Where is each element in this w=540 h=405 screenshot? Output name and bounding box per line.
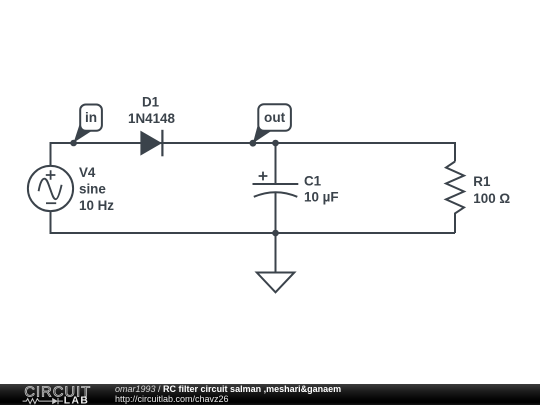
svg-text:C1: C1: [304, 174, 322, 189]
svg-text:R1: R1: [473, 174, 491, 189]
svg-text:out: out: [264, 110, 286, 125]
svg-text:10 Hz: 10 Hz: [79, 198, 114, 213]
svg-text:10 µF: 10 µF: [304, 190, 339, 205]
svg-text:D1: D1: [142, 95, 160, 110]
svg-text:in: in: [85, 110, 97, 125]
svg-text:100 Ω: 100 Ω: [473, 191, 510, 206]
svg-text:V4: V4: [79, 165, 96, 180]
svg-text:sine: sine: [79, 181, 106, 196]
svg-text:1N4148: 1N4148: [128, 111, 175, 126]
svg-text:LAB: LAB: [64, 396, 90, 405]
